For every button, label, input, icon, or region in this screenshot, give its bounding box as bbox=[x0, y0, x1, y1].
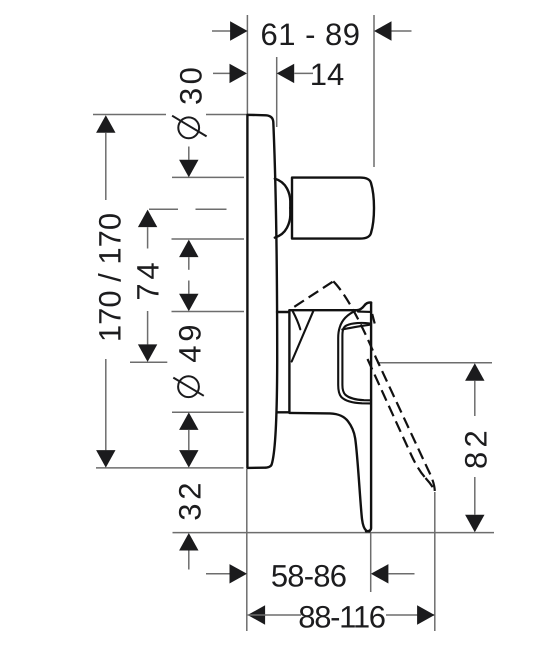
thumb-rest ridge bbox=[342, 325, 369, 330]
extension line wall (x=246.8 bottom) bbox=[246, 469, 248, 631]
dimension 32 bbox=[173, 479, 208, 570]
dashed lever outline upper bbox=[333, 281, 435, 491]
svg-text:30: 30 bbox=[174, 64, 209, 105]
reference line lower datum (y=532.6) bbox=[173, 532, 495, 534]
reference line knob bottom (y=239) bbox=[172, 238, 245, 240]
svg-text:74: 74 bbox=[131, 259, 166, 301]
escutcheon plate bbox=[247, 115, 277, 468]
dimension 170/170 bbox=[92, 115, 127, 467]
hub sculpt curve bbox=[293, 311, 301, 329]
extension line dashed-lever tip (x=434.8) bbox=[434, 492, 436, 631]
hub sculpt diagonal bbox=[292, 311, 314, 362]
lever bottom/back edge bbox=[289, 413, 369, 532]
dashed lever outline lower bbox=[368, 359, 426, 478]
center line handle axis left (y=362.3) bbox=[130, 361, 167, 363]
dashed lever raised back edge bbox=[294, 281, 333, 307]
reference line plate top (y=114.5) bbox=[93, 114, 247, 116]
handle collar bbox=[277, 310, 289, 412]
reference line rosette bottom (y=412.2) bbox=[172, 411, 244, 413]
diverter knob neck bbox=[275, 179, 291, 238]
svg-text:82: 82 bbox=[459, 426, 494, 469]
extension line knob front (x=374) bbox=[373, 15, 375, 167]
extension line plate front (x=276.7) bbox=[276, 57, 278, 127]
dimension 88-116 bbox=[248, 599, 435, 634]
dimension 58-86 bbox=[206, 559, 415, 594]
thumb-rest inner contour bbox=[342, 323, 371, 400]
dashed lever front edge upper dash bbox=[372, 314, 375, 324]
lever step under peak bbox=[358, 311, 371, 313]
dimension 14 bbox=[213, 57, 344, 92]
reference line plate bottom (y=467.9) bbox=[96, 467, 244, 469]
lever top edge and peak bbox=[289, 303, 371, 311]
dashed lever tip bbox=[426, 478, 435, 491]
diverter knob bbox=[292, 178, 374, 239]
reference line handle top (y=311.5) bbox=[172, 311, 245, 313]
center line knob axis (y=209.2) bbox=[149, 208, 227, 210]
svg-text:170 / 170: 170 / 170 bbox=[92, 213, 127, 342]
dimension 74 bbox=[131, 210, 166, 362]
svg-text:32: 32 bbox=[173, 479, 208, 521]
svg-text:58-86: 58-86 bbox=[271, 559, 346, 594]
svg-text:61 - 89: 61 - 89 bbox=[260, 17, 360, 52]
extension line handle tip (x=370.7) bbox=[370, 533, 372, 592]
svg-text:14: 14 bbox=[310, 57, 344, 92]
reference line knob top (y=177.4) bbox=[172, 176, 244, 178]
dimension Ø49 bbox=[173, 281, 208, 468]
svg-text:49: 49 bbox=[173, 321, 208, 363]
thumb-rest outer contour bbox=[338, 310, 371, 403]
svg-text:88-116: 88-116 bbox=[298, 599, 384, 634]
center line handle axis right (y=362.8) bbox=[377, 362, 492, 364]
dimension Ø30 bbox=[172, 64, 208, 270]
extension line wall (x=247.4 top) bbox=[246, 15, 248, 114]
lever front edge bbox=[366, 303, 371, 532]
dimension 82 bbox=[459, 363, 494, 532]
dimension 61-89 bbox=[212, 17, 412, 52]
